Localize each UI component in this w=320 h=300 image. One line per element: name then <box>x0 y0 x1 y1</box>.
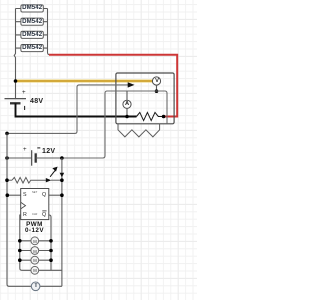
motor M3 <box>18 256 53 264</box>
meter module outer box <box>116 73 174 124</box>
battery 12V plates <box>32 148 41 166</box>
wire: R stub to motor left bus <box>20 215 31 270</box>
node: pot right junction <box>60 178 64 182</box>
label PWM <box>21 221 48 228</box>
label Q pin <box>42 192 46 198</box>
flip-flop U1 box <box>21 189 49 220</box>
motor M4 <box>31 266 39 274</box>
wire: Qbar stub to motor right bus <box>49 215 51 270</box>
voltmeter V1 circle <box>152 77 160 85</box>
node: 12V left junction <box>5 156 9 160</box>
label Qbar pin <box>42 212 46 218</box>
battery 48V plates <box>5 99 27 110</box>
wire: 12V right lead <box>36 157 62 159</box>
label DM542 #3 <box>21 32 43 38</box>
wire: 48V+ left bus vertical with jog <box>14 9 15 99</box>
wire: yellow 48V+ feed <box>16 79 153 82</box>
label M2 <box>28 249 42 254</box>
ammeter A1 circle <box>123 100 131 108</box>
driver DM542 #4 <box>16 45 48 52</box>
label M1 <box>28 239 42 244</box>
driver DM542 #2 <box>16 18 48 25</box>
wire: V meter lead <box>156 85 158 91</box>
resistor R2 load <box>118 124 160 137</box>
node: ammeter junction <box>125 115 129 119</box>
label V meter <box>149 78 165 84</box>
label CLR <box>32 213 37 216</box>
wire: red 48V+ return <box>49 55 177 117</box>
wire: 12V left lead <box>7 157 32 159</box>
node: red junction <box>162 115 166 119</box>
thermometer T1 <box>31 282 62 291</box>
wire: measurement loop <box>62 91 167 158</box>
label 48V plus <box>22 89 26 96</box>
potentiometer R3 <box>8 167 62 183</box>
label 12V plus <box>23 146 27 153</box>
label R pin <box>23 212 27 218</box>
wire: A meter top lead <box>126 91 128 100</box>
label T <box>29 283 43 289</box>
label M4 <box>28 268 42 273</box>
label 0-12V <box>21 227 48 234</box>
wire: right control bus <box>61 158 63 286</box>
node: 12V corner junction <box>5 132 9 136</box>
label DM542 #4 <box>21 45 43 51</box>
label SET <box>32 191 37 194</box>
resistor R1 shunt <box>137 112 164 120</box>
arrowhead control line <box>128 82 135 87</box>
motor M2 <box>18 247 53 255</box>
wire: control line into meter box <box>7 85 129 133</box>
label 12V <box>42 148 55 155</box>
wire: motor row4 to T bus <box>39 269 62 271</box>
arrowhead down on right bus <box>60 173 65 177</box>
node: Q output junction <box>60 193 64 197</box>
label DM542 #1 <box>21 5 43 11</box>
node: S input junction <box>6 193 10 197</box>
node: V tap junction <box>155 89 159 93</box>
label S pin <box>23 192 27 198</box>
motor M1 <box>18 237 53 245</box>
driver DM542 #1 <box>16 5 48 12</box>
wire: Q output stub <box>49 194 62 196</box>
wire: 48V minus to black power rail <box>16 103 137 116</box>
label DM542 #2 <box>21 19 43 25</box>
label 48V <box>30 98 43 105</box>
node: 12V right junction <box>60 156 64 160</box>
wire: DM542 right bus vertical <box>48 9 52 55</box>
node: pot left junction <box>5 178 9 182</box>
label A meter <box>119 101 135 107</box>
driver DM542 #3 <box>16 31 48 38</box>
wire: S input stub <box>7 194 20 196</box>
wire: A meter bottom lead <box>126 108 128 116</box>
node: yellow junction <box>14 79 18 83</box>
label M3 <box>28 258 42 263</box>
wire: left control bus <box>7 133 31 286</box>
